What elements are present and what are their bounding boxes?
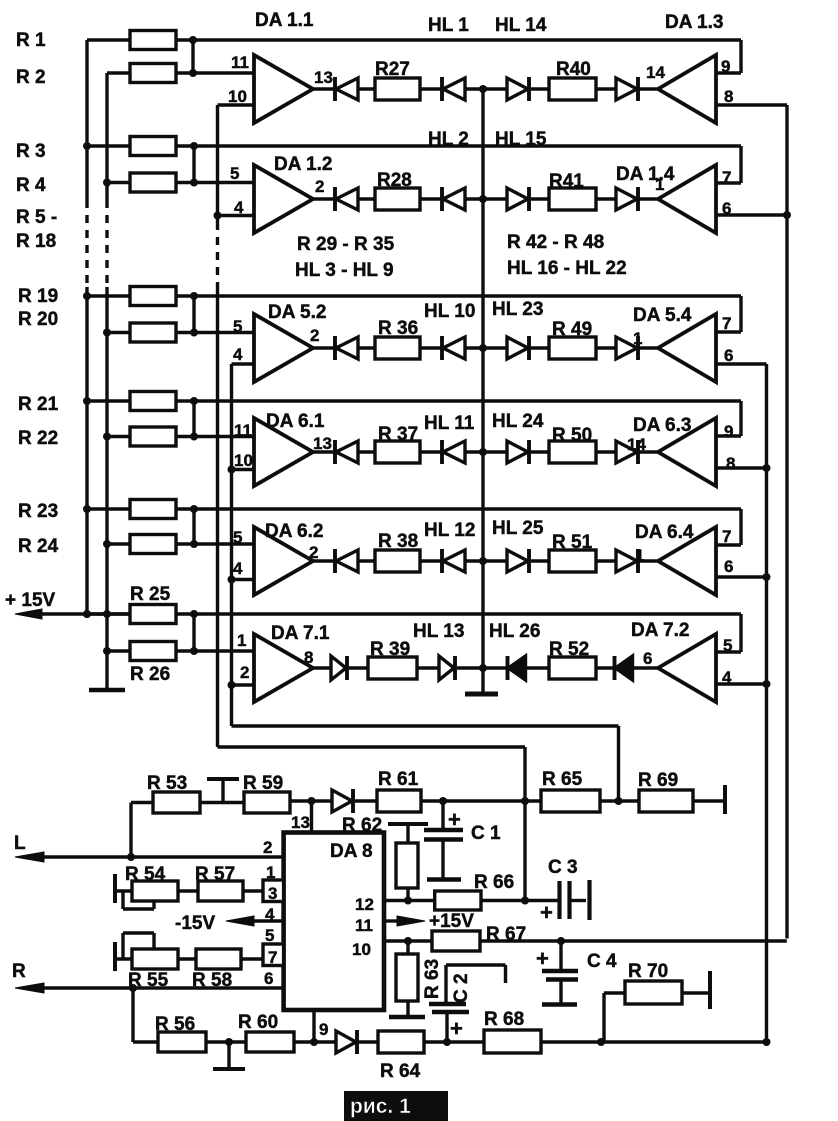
resistor R26 (input ladder) — [107, 649, 130, 652]
wire — [358, 559, 375, 562]
svg-text:11: 11 — [234, 421, 252, 440]
svg-text:12: 12 — [355, 895, 374, 914]
svg-text:R 18: R 18 — [16, 231, 56, 252]
diode HL left a row2 — [333, 187, 337, 211]
svg-text:DA 6.3: DA 6.3 — [633, 415, 691, 436]
wire — [420, 197, 442, 200]
wire rail to input join — [191, 40, 194, 73]
diode VD bottom — [336, 1031, 356, 1053]
svg-text:R 1: R 1 — [16, 30, 46, 51]
svg-text:R 54: R 54 — [125, 864, 166, 885]
svg-text:+: + — [540, 900, 553, 925]
svg-text:R 38: R 38 — [378, 531, 418, 552]
wire DA 1.3 output — [716, 103, 787, 106]
output R arrow — [22, 986, 284, 989]
wire — [420, 87, 442, 90]
diode HL left a row5 — [333, 549, 337, 573]
resistor R 39 — [368, 657, 417, 679]
resistor R 37 — [375, 441, 420, 463]
wire R61 to R65 — [421, 799, 541, 802]
diode HL right b row1 — [616, 78, 637, 100]
svg-text:1: 1 — [237, 631, 246, 650]
resistor R 52 — [549, 657, 596, 679]
wire rail to input join — [192, 509, 195, 544]
svg-text:DA 8: DA 8 — [330, 841, 373, 862]
resistor R24 (input ladder) — [107, 542, 130, 545]
wire — [355, 799, 377, 802]
wire to centre — [465, 559, 483, 562]
wire DA 6.1 inverting input — [232, 468, 255, 471]
wire to op-amp — [634, 666, 658, 669]
wire R64 to R68 — [424, 1040, 484, 1043]
diode HL right a row5 — [507, 550, 528, 572]
svg-text:5: 5 — [265, 926, 274, 945]
svg-text:10: 10 — [234, 451, 253, 470]
diode HL right b row3 — [616, 337, 637, 359]
wire feedback notch — [739, 40, 742, 73]
diode row6 c — [506, 656, 510, 680]
svg-text:DA 6.1: DA 6.1 — [266, 411, 325, 432]
svg-text:R 5 -: R 5 - — [16, 207, 57, 228]
wire rail to input join — [192, 401, 195, 437]
wire R65 to R69 — [600, 799, 639, 802]
wire — [417, 666, 438, 669]
svg-text:HL 12: HL 12 — [424, 520, 475, 541]
wire pin 10 / R67 line — [384, 939, 432, 942]
svg-text:R 68: R 68 — [484, 1009, 524, 1030]
capacitor C4 — [559, 941, 562, 970]
svg-text:+ 15V: + 15V — [5, 590, 56, 611]
svg-text:C 2: C 2 — [451, 973, 472, 1003]
wire vertical bus V1 (+15V rail) — [85, 40, 88, 200]
svg-text:R 23: R 23 — [18, 501, 58, 522]
wire centre column — [481, 89, 484, 668]
resistor R 50 — [549, 441, 596, 463]
op-amp DA 6.2 — [254, 527, 313, 595]
wire op-amp output — [313, 666, 330, 669]
wire — [531, 346, 549, 349]
svg-text:+: + — [448, 807, 461, 832]
wire — [349, 666, 368, 669]
trimmer R 55 — [113, 942, 117, 971]
wire R68 to right bus — [541, 1040, 767, 1043]
resistor R19 (input ladder) — [87, 294, 130, 297]
wire op-amp output — [313, 346, 335, 349]
resistor R23 (input ladder) — [87, 507, 130, 510]
svg-text:HL 25: HL 25 — [492, 518, 544, 539]
resistor R 38 — [375, 550, 420, 572]
svg-text:7: 7 — [268, 948, 277, 967]
svg-text:+15V: +15V — [429, 911, 474, 932]
wire to op-amp — [639, 197, 658, 200]
arrow +15V — [15, 609, 42, 619]
capacitor C2 — [446, 963, 506, 966]
svg-text:13: 13 — [313, 434, 332, 453]
svg-text:DA 5.4: DA 5.4 — [633, 305, 692, 326]
wire — [359, 1040, 378, 1043]
wire R56 to R line — [131, 988, 134, 1042]
wire DA 5.2 inverting input — [232, 362, 255, 365]
wire — [358, 87, 375, 90]
wire inverting bus 2 (x=231) — [230, 364, 233, 726]
op-amp DA 1.4 — [658, 165, 716, 233]
wire +15V feed line — [22, 612, 130, 615]
svg-text:10: 10 — [228, 87, 247, 106]
op-amp DA 6.3 — [658, 418, 716, 486]
resistor R4 (input ladder) — [107, 181, 130, 184]
svg-text:R 42 - R 48: R 42 - R 48 — [507, 232, 604, 253]
wire right bus rows 1-2 (x=787) — [785, 105, 788, 939]
wire from centre — [483, 450, 507, 453]
figure caption — [344, 1091, 448, 1121]
resistor R 51 — [549, 550, 596, 572]
op-amp DA 1.3 — [658, 55, 716, 123]
wire feedback notch — [739, 146, 742, 183]
wire DA8 pin 9 — [312, 1010, 315, 1042]
svg-text:C 3: C 3 — [548, 857, 578, 878]
svg-text:3: 3 — [268, 884, 277, 903]
terminal stub between R56 and R60 — [206, 1040, 246, 1043]
wire — [596, 197, 616, 200]
wire DA 6.4 output — [716, 575, 767, 578]
svg-text:R 37: R 37 — [378, 424, 418, 445]
svg-text:DA 7.1: DA 7.1 — [271, 623, 330, 644]
resistor R 61 — [377, 790, 421, 812]
resistor R 60 — [246, 1032, 294, 1052]
svg-text:2: 2 — [240, 663, 249, 682]
resistor R1 (input ladder) — [87, 38, 130, 41]
diode VD top — [332, 790, 352, 812]
svg-text:R 66: R 66 — [474, 872, 514, 893]
wire — [596, 666, 615, 669]
svg-text:4: 4 — [233, 559, 243, 578]
svg-text:R 26: R 26 — [130, 664, 170, 685]
svg-text:R 22: R 22 — [18, 428, 58, 449]
svg-text:DA 6.4: DA 6.4 — [635, 522, 694, 543]
svg-text:HL 11: HL 11 — [424, 413, 475, 434]
op-amp DA 5.4 — [658, 314, 716, 382]
resistor R 57 — [198, 881, 243, 901]
svg-text:R 63: R 63 — [422, 959, 443, 999]
diode HL right b row2 — [616, 188, 637, 210]
svg-text:HL 23: HL 23 — [492, 299, 543, 320]
terminal bar below V2 — [89, 688, 125, 693]
diode HL left b row3 — [440, 336, 444, 360]
wire — [596, 346, 616, 349]
svg-text:R 61: R 61 — [378, 769, 419, 790]
wire — [531, 450, 549, 453]
svg-text:8: 8 — [726, 454, 735, 473]
resistor R 56 — [133, 1040, 158, 1043]
svg-text:7: 7 — [722, 527, 731, 546]
svg-text:R 3: R 3 — [16, 141, 46, 162]
wire feedback notch — [739, 614, 742, 652]
svg-text:R 51: R 51 — [552, 532, 593, 553]
svg-text:14: 14 — [646, 63, 665, 82]
op-amp DA 7.2 — [658, 634, 716, 702]
diode HL left a row4 — [333, 440, 337, 464]
wire R55 to R58 — [178, 957, 196, 960]
wire wrap line B (bus1 to R61/R65 node) — [218, 745, 526, 748]
svg-text:6: 6 — [724, 557, 733, 576]
svg-text:R 58: R 58 — [192, 970, 232, 991]
svg-text:13: 13 — [291, 813, 310, 832]
svg-text:R 4: R 4 — [16, 175, 46, 196]
wire — [531, 87, 549, 90]
svg-text:6: 6 — [724, 346, 733, 365]
svg-text:HL 10: HL 10 — [424, 301, 475, 322]
wire centre stub to ground bar — [481, 668, 484, 692]
svg-text:R 24: R 24 — [18, 536, 59, 557]
svg-text:2: 2 — [263, 838, 272, 857]
wire from centre — [483, 87, 507, 90]
power -15V arrow (pin 4) — [240, 919, 284, 922]
diode HL left b row4 — [440, 440, 444, 464]
op-amp DA 1.2 — [254, 165, 313, 233]
svg-text:5: 5 — [230, 164, 239, 183]
op-amp DA 6.4 — [658, 527, 716, 595]
svg-text:R 25: R 25 — [130, 584, 171, 605]
wire — [358, 197, 375, 200]
svg-text:DA 5.2: DA 5.2 — [268, 302, 326, 323]
svg-text:R 29 - R 35: R 29 - R 35 — [297, 234, 395, 255]
wire to op-amp — [639, 559, 658, 562]
wire R67 to right bus — [480, 939, 787, 942]
wire to op-amp — [639, 87, 658, 90]
wire rail to input join — [192, 146, 195, 183]
svg-text:14: 14 — [627, 435, 646, 454]
svg-text:R 56: R 56 — [155, 1014, 195, 1035]
wire to centre — [465, 450, 483, 453]
svg-text:8: 8 — [304, 648, 313, 667]
diode HL right a row3 — [507, 337, 528, 359]
svg-text:R 59: R 59 — [243, 773, 283, 794]
svg-text:DA 7.2: DA 7.2 — [631, 620, 689, 641]
resistor R3 (input ladder) — [87, 144, 130, 147]
diode HL right a row2 — [507, 188, 528, 210]
trimmer R 54 — [113, 874, 117, 903]
resistor R 66 — [435, 891, 481, 910]
resistor R 59 — [244, 792, 290, 813]
wire feedback notch — [739, 509, 742, 545]
capacitor C3 — [557, 881, 561, 919]
resistor R21 (input ladder) — [87, 399, 130, 402]
svg-text:11: 11 — [231, 53, 249, 72]
resistor R20 (input ladder) — [107, 331, 130, 334]
svg-text:DA 6.2: DA 6.2 — [265, 521, 323, 542]
wire feedback notch — [739, 296, 742, 332]
svg-text:HL 3 - HL 9: HL 3 - HL 9 — [295, 260, 394, 281]
pin 7 box — [263, 944, 284, 966]
svg-text:R 36: R 36 — [378, 318, 418, 339]
resistor R40 — [549, 78, 596, 100]
svg-text:R 60: R 60 — [238, 1012, 278, 1033]
svg-text:1: 1 — [655, 175, 664, 194]
capacitor C1 — [441, 801, 444, 829]
svg-text:R27: R27 — [375, 59, 410, 80]
wire to op-amp — [639, 450, 658, 453]
svg-text:HL 13: HL 13 — [413, 621, 464, 642]
diode HL left b row2 — [440, 187, 444, 211]
svg-text:R 53: R 53 — [147, 773, 187, 794]
wire R60 to diode — [294, 1040, 336, 1043]
resistor R 64 — [378, 1031, 424, 1053]
wire DA 5.4 output — [716, 362, 767, 365]
op-amp DA 7.1 — [254, 634, 313, 702]
wire op-amp output — [313, 197, 335, 200]
svg-text:10: 10 — [352, 940, 371, 959]
wire DA 7.2 output — [716, 682, 767, 685]
wire from centre — [483, 197, 507, 200]
diode HL right a row4 — [507, 441, 528, 463]
resistor R 70 — [604, 991, 625, 994]
wire op-amp output — [313, 559, 335, 562]
svg-text:+: + — [536, 946, 549, 971]
resistor R 69 — [639, 790, 693, 812]
svg-text:8: 8 — [724, 87, 733, 106]
resistor R 65 — [541, 790, 600, 812]
wire op-amp output — [313, 450, 335, 453]
svg-text:HL 24: HL 24 — [492, 411, 544, 432]
svg-text:5: 5 — [233, 317, 242, 336]
svg-text:2: 2 — [309, 543, 318, 562]
svg-text:7: 7 — [722, 314, 731, 333]
wire from centre — [483, 666, 508, 669]
wire DA 7.1 inverting input — [232, 683, 255, 686]
output L arrow — [22, 855, 284, 858]
diode HL left b row5 — [440, 549, 444, 573]
wire DA 6.2 inverting input — [232, 578, 255, 581]
svg-text:R41: R41 — [549, 171, 584, 192]
svg-text:R 57: R 57 — [195, 864, 235, 885]
svg-text:2: 2 — [315, 177, 324, 196]
svg-text:рис. 1: рис. 1 — [350, 1095, 411, 1118]
pin 3 box — [263, 880, 284, 902]
svg-text:R 20: R 20 — [18, 309, 58, 330]
resistor R41 — [549, 188, 596, 210]
resistor R 58 — [196, 949, 241, 969]
svg-text:R 39: R 39 — [370, 639, 410, 660]
svg-text:11: 11 — [355, 916, 373, 935]
wire vertical bus V2 (even resistor common) — [105, 73, 108, 200]
svg-text:DA 1.2: DA 1.2 — [274, 154, 332, 175]
wire — [420, 346, 442, 349]
resistor R28 — [375, 188, 420, 210]
wire — [358, 346, 375, 349]
wire R69 to terminal — [693, 799, 723, 802]
wire — [596, 87, 616, 90]
resistor R 36 — [375, 337, 420, 359]
wire — [531, 197, 549, 200]
wire — [596, 559, 616, 562]
resistor R 53 — [131, 801, 153, 804]
svg-text:9: 9 — [724, 422, 733, 441]
wire R58 to pin 7 — [241, 957, 263, 960]
wire DA 1.1 inverting input — [218, 103, 255, 106]
svg-text:HL 16 - HL 22: HL 16 - HL 22 — [507, 258, 627, 279]
wire — [531, 559, 549, 562]
svg-text:+: + — [450, 1016, 463, 1041]
wire DA 6.3 output — [716, 466, 767, 469]
svg-text:R 69: R 69 — [638, 770, 678, 791]
svg-text:9: 9 — [319, 1020, 328, 1039]
svg-text:6: 6 — [264, 969, 273, 988]
svg-text:R 52: R 52 — [549, 639, 589, 660]
IC DA 8 — [284, 833, 384, 1011]
resistor R2 (input ladder) — [107, 71, 130, 74]
wire op-amp output — [313, 87, 335, 90]
resistor R27 — [375, 78, 420, 100]
diode HL right b row5 — [616, 550, 637, 572]
terminal bar below centre column — [465, 692, 498, 697]
resistor R 67 — [432, 931, 480, 951]
svg-text:13: 13 — [314, 68, 333, 87]
svg-text:HL 15: HL 15 — [495, 129, 547, 150]
wire right bus rows 3-6 (x=766) — [765, 364, 768, 1042]
terminal stub between R53 and R59 — [200, 801, 244, 804]
wire feedback notch — [739, 401, 742, 436]
svg-text:L: L — [14, 833, 26, 854]
resistor R22 (input ladder) — [107, 435, 130, 438]
svg-text:HL 1: HL 1 — [428, 15, 469, 36]
wire — [420, 450, 442, 453]
resistor R 62 (vertical, with open top bar) — [388, 822, 428, 826]
svg-text:DA 1.4: DA 1.4 — [616, 164, 675, 185]
diode row6 b — [439, 656, 454, 680]
resistor R 63 (vertical) — [406, 941, 409, 954]
wire R53 to L line — [129, 803, 132, 858]
svg-text:R 65: R 65 — [542, 769, 583, 790]
op-amp DA 1.1 — [254, 55, 313, 123]
wire R59 to diode — [290, 799, 332, 802]
svg-text:R 50: R 50 — [552, 425, 592, 446]
wire to op-amp — [639, 346, 658, 349]
wire — [420, 559, 442, 562]
svg-text:C 4: C 4 — [587, 951, 617, 972]
wire DA 1.2 inverting input — [218, 214, 255, 217]
wire DA 1.4 output — [716, 213, 787, 216]
svg-text:R 70: R 70 — [628, 961, 668, 982]
svg-text:R 2: R 2 — [16, 67, 46, 88]
op-amp DA 6.1 — [254, 418, 313, 486]
svg-text:4: 4 — [234, 198, 244, 217]
wire from centre — [483, 346, 507, 349]
wire rail to input join — [192, 296, 195, 333]
svg-text:R 64: R 64 — [380, 1061, 421, 1082]
svg-text:1: 1 — [633, 329, 642, 348]
wire inverting bus 1 (x=217) — [216, 105, 219, 222]
wire — [596, 450, 616, 453]
svg-text:HL 2: HL 2 — [428, 129, 469, 150]
svg-text:HL 26: HL 26 — [489, 621, 540, 642]
svg-text:DA 1.1: DA 1.1 — [255, 10, 314, 31]
svg-text:C 1: C 1 — [471, 823, 501, 844]
svg-text:1: 1 — [635, 546, 644, 565]
svg-text:DA 1.3: DA 1.3 — [665, 12, 723, 33]
svg-text:R40: R40 — [556, 59, 591, 80]
svg-text:-15V: -15V — [175, 913, 215, 934]
resistor R 68 — [484, 1030, 541, 1053]
svg-text:2: 2 — [310, 326, 319, 345]
wire — [358, 450, 375, 453]
op-amp DA 5.2 — [254, 314, 313, 382]
wire R54 to R57 — [178, 889, 198, 892]
diode HL right a row1 — [507, 78, 528, 100]
wire R57 to pin 3 — [243, 889, 263, 892]
svg-text:6: 6 — [643, 649, 652, 668]
svg-text:HL 14: HL 14 — [495, 15, 547, 36]
wire to centre — [457, 666, 483, 669]
